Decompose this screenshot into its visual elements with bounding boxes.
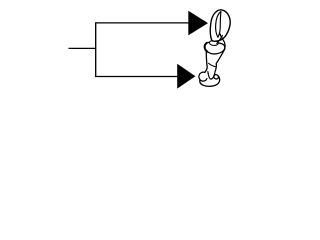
- figure: body diagonal: [208, 63, 216, 67]
- figure: knot strand long: [215, 34, 225, 72]
- figure: base left loop: [199, 72, 207, 81]
- figure: collar inner rim: [209, 40, 218, 46]
- figure: body left edge: [205, 51, 207, 73]
- figure: collar left thick shade: [205, 43, 208, 52]
- figure: saddle curve: [208, 71, 215, 79]
- figure: inner leaf: [216, 11, 221, 37]
- figure: knot strand cross: [217, 36, 223, 44]
- wire top branch: [95, 22, 189, 24]
- figure: balloon oval: [210, 10, 230, 41]
- wire bottom branch: [95, 76, 177, 78]
- arrowhead bottom: [177, 64, 195, 89]
- figure: collar outer rim: [204, 42, 224, 54]
- figure: base blob: [200, 75, 220, 87]
- arrowhead top: [188, 11, 208, 36]
- wire vertical branch: [95, 23, 97, 77]
- wire input stub: [69, 47, 96, 49]
